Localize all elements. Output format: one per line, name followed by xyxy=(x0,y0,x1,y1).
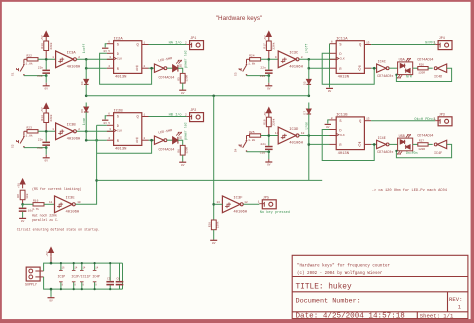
svg-text:0V: 0V xyxy=(45,87,49,90)
svg-text:R5: R5 xyxy=(177,77,180,81)
wire +5V to rail xyxy=(50,257,52,263)
svg-text:R22: R22 xyxy=(27,55,33,58)
wire R16 to IC3E xyxy=(44,203,55,205)
svg-text:IC4P: IC4P xyxy=(92,274,100,278)
wire R5 to ground xyxy=(182,83,184,90)
flip-flop IC11B xyxy=(336,117,364,150)
+5V supply supply xyxy=(49,248,54,253)
resistor R17 xyxy=(266,41,271,51)
svg-text:Q: Q xyxy=(137,116,139,120)
diode D7 xyxy=(307,109,312,113)
svg-text:Q: Q xyxy=(358,144,360,148)
wire R26 to IC4D xyxy=(428,67,433,69)
svg-text:IC4C: IC4C xyxy=(378,61,386,65)
svg-text:R9: R9 xyxy=(17,194,20,198)
wire Qbar loop IC2B xyxy=(97,140,152,153)
ground below R5 xyxy=(182,89,184,92)
wire D pin IC11B xyxy=(330,129,337,131)
svg-text:0V: 0V xyxy=(49,299,53,302)
wire R18 to node xyxy=(268,127,270,136)
svg-text:R20: R20 xyxy=(208,222,211,227)
svg-text:Q: Q xyxy=(358,68,360,72)
svg-text:10: 10 xyxy=(77,201,81,204)
node POR RC xyxy=(21,203,24,206)
svg-text:S: S xyxy=(339,120,341,124)
flip-flop IC2B xyxy=(114,113,142,146)
resistor R5 xyxy=(180,73,185,83)
svg-text:S: S xyxy=(117,116,119,120)
svg-text:4.7k: 4.7k xyxy=(32,207,39,211)
wire R pin IC11A xyxy=(330,67,337,69)
capacitor C13 xyxy=(42,70,50,72)
svg-text:D: D xyxy=(117,53,119,57)
svg-text:220k: 220k xyxy=(271,118,275,125)
wire switch top xyxy=(247,135,250,137)
wire D pin IC2A xyxy=(107,52,114,54)
wire switch bottom to cap xyxy=(24,75,46,77)
svg-text:R27: R27 xyxy=(419,140,424,143)
svg-text:IC2A: IC2A xyxy=(114,38,124,42)
svg-text:Sheet: 1/1: Sheet: 1/1 xyxy=(420,312,454,319)
svg-text:IC11A: IC11A xyxy=(336,38,348,42)
connector JP2 xyxy=(190,113,204,122)
node Qbar IC11A xyxy=(373,67,376,70)
svg-text:120R: 120R xyxy=(418,148,425,151)
node dual LED return xyxy=(395,150,397,152)
svg-text:40106H: 40106H xyxy=(67,66,81,70)
diode D6 xyxy=(84,107,89,111)
node +5V rail xyxy=(50,262,53,265)
svg-text:CD74AC0x: CD74AC0x xyxy=(377,75,393,79)
wire dual LED to R26 xyxy=(413,67,418,69)
inverter IC4C xyxy=(377,64,387,72)
svg-text:1: 1 xyxy=(458,304,461,310)
svg-text:40106H: 40106H xyxy=(67,138,81,142)
wire CLK pin IC11B xyxy=(330,135,337,137)
title block frame xyxy=(292,255,468,318)
svg-text:1=off: 1=off xyxy=(82,44,86,54)
svg-text:D4: D4 xyxy=(81,81,84,85)
svg-text:220k: 220k xyxy=(49,114,53,121)
node 0V rail xyxy=(50,288,53,291)
wire R14 to node xyxy=(45,123,47,132)
switch S2 xyxy=(23,136,25,138)
wire node to C3 xyxy=(22,204,24,207)
node R IC11B xyxy=(308,143,311,146)
svg-text:D: D xyxy=(339,53,341,57)
wire input node xyxy=(38,58,56,60)
wire D pin IC11A xyxy=(330,52,337,54)
svg-text:11: 11 xyxy=(49,201,53,204)
svg-text:13: 13 xyxy=(366,118,370,121)
+5V supply for R13 xyxy=(44,32,49,37)
node reset bus to IC3F xyxy=(212,95,215,98)
svg-text:REV:: REV: xyxy=(449,296,462,303)
ground at S of IC11B xyxy=(325,123,331,125)
svg-text:CD74AC0x: CD74AC0x xyxy=(377,151,393,155)
svg-text:1.8k: 1.8k xyxy=(248,138,255,142)
svg-text:S: S xyxy=(117,44,119,48)
svg-text:CD74AC04: CD74AC04 xyxy=(417,58,433,62)
svg-text:TITLE: hukey: TITLE: hukey xyxy=(296,284,352,292)
ground below C16 xyxy=(268,159,270,162)
svg-text:R23: R23 xyxy=(27,127,33,130)
svg-text:0V: 0V xyxy=(21,220,25,223)
svg-text:S: S xyxy=(339,44,341,48)
wire D to Qbar loop IC2A xyxy=(100,53,152,84)
svg-text:+5V: +5V xyxy=(264,35,267,40)
wire D7 to S4 node xyxy=(308,103,310,110)
wire switch bottom to cap xyxy=(247,75,269,77)
wire input node xyxy=(38,130,56,132)
svg-text:IC2B: IC2B xyxy=(114,110,124,114)
node R IC11A xyxy=(308,67,311,70)
wire node to cap xyxy=(45,59,47,69)
node Qbar IC2A xyxy=(150,67,153,70)
inverter IC3A xyxy=(56,51,74,68)
inverter IC3C xyxy=(278,51,296,68)
ground at S of IC2B xyxy=(102,119,108,121)
wire D pin IC2B xyxy=(107,124,114,126)
node IC3A output xyxy=(85,58,88,61)
svg-text:IC2P/IC11P: IC2P/IC11P xyxy=(71,274,90,278)
inverter None xyxy=(154,136,164,144)
svg-text:L=on: L=on xyxy=(305,122,309,130)
svg-text:power led: power led xyxy=(184,122,188,139)
resistor R18 xyxy=(266,117,271,127)
svg-text:1.8k: 1.8k xyxy=(248,62,255,66)
node R IC2B xyxy=(85,139,88,142)
svg-text:JP2: JP2 xyxy=(190,109,196,113)
svg-text:120R: 120R xyxy=(185,147,188,154)
wire IC3B output xyxy=(77,130,114,132)
svg-text:1.8k: 1.8k xyxy=(26,134,33,138)
ground at S of IC11A xyxy=(326,87,333,89)
wire IC3F to JP5 xyxy=(243,203,259,205)
svg-text:Date: 4/25/2004 14:57:18: Date: 4/25/2004 14:57:18 xyxy=(296,313,406,321)
svg-text:0V: 0V xyxy=(212,242,216,245)
svg-text:+5V: +5V xyxy=(41,107,44,112)
svg-text:13: 13 xyxy=(217,201,221,204)
wire reset bus xyxy=(86,95,309,97)
resistor R25 xyxy=(250,134,261,137)
+5V supply for R17 xyxy=(266,32,271,37)
svg-text:10u: 10u xyxy=(28,209,34,212)
svg-text:0V: 0V xyxy=(326,126,330,129)
svg-text:Q: Q xyxy=(359,44,361,48)
resistor R14 xyxy=(44,113,49,123)
resistor R22 xyxy=(27,58,38,61)
svg-text:D6: D6 xyxy=(81,109,84,113)
wire S of IC11A down to ground xyxy=(329,44,331,88)
wire D5 to reset bus xyxy=(308,85,310,96)
wire return loop IC4D to dual LED xyxy=(396,68,451,81)
svg-text:22n: 22n xyxy=(38,139,44,142)
svg-text:R6: R6 xyxy=(177,149,180,153)
inverter IC3F xyxy=(222,196,240,213)
wire R13 to node xyxy=(45,51,47,60)
wire S pin IC11B xyxy=(330,119,337,121)
wire switch bottom to cap xyxy=(247,151,269,153)
svg-text:120R: 120R xyxy=(418,72,425,75)
svg-text:+5V: +5V xyxy=(18,183,21,188)
svg-text:220k: 220k xyxy=(49,42,53,49)
ground below C15 xyxy=(268,83,270,86)
wire R9 to node xyxy=(22,200,24,205)
svg-text:22n: 22n xyxy=(260,143,266,146)
svg-text:0V: 0V xyxy=(104,50,108,53)
svg-text:C15: C15 xyxy=(260,75,266,78)
svg-text:IC3F: IC3F xyxy=(233,197,243,201)
LED indicator for S1 xyxy=(173,65,178,72)
svg-text:0V: 0V xyxy=(181,92,185,95)
wire inverter to LED xyxy=(167,67,173,69)
ground below C14 xyxy=(45,155,47,158)
svg-text:C13: C13 xyxy=(37,75,43,78)
resistor R20 pull xyxy=(211,220,216,230)
resistor R6 xyxy=(180,145,185,155)
resistor R13 xyxy=(44,41,49,51)
svg-text:power led: power led xyxy=(184,50,188,67)
power pin pair 3 xyxy=(81,263,83,270)
wire IC3A output xyxy=(77,58,114,60)
wire reset chain left xyxy=(85,59,87,79)
svg-text:Document Number:: Document Number: xyxy=(296,297,361,305)
switch S3 xyxy=(246,64,248,66)
wire R pin IC2A xyxy=(107,67,114,69)
connector JP3 xyxy=(438,117,452,126)
wire Qbar output IC2A xyxy=(142,67,149,69)
svg-text:IC3E: IC3E xyxy=(66,197,76,201)
svg-text:R14: R14 xyxy=(41,115,44,121)
svg-text:"Hardware keys": "Hardware keys" xyxy=(216,15,262,22)
wire S pin IC2A xyxy=(107,43,114,45)
wire to ground xyxy=(268,152,270,159)
svg-text:IC4D: IC4D xyxy=(434,76,442,80)
switch S4 xyxy=(246,140,248,142)
node IC3B output xyxy=(85,130,88,133)
svg-text:0V: 0V xyxy=(181,164,185,167)
svg-text:Circuit ensuring defined state: Circuit ensuring defined state on startu… xyxy=(17,228,100,232)
svg-text:"Hardware keys" for frequency: "Hardware keys" for frequency counter xyxy=(297,263,390,268)
svg-text:JP1: JP1 xyxy=(190,37,196,41)
wire no-key sense line xyxy=(213,96,215,220)
node cap bottom xyxy=(268,151,271,154)
svg-text:4013N: 4013N xyxy=(338,152,349,156)
dual LED U5A xyxy=(398,62,413,75)
power pin pair 4 xyxy=(94,263,96,270)
wire Qbar output IC11A xyxy=(364,67,371,69)
node trigger input S1 xyxy=(45,58,48,61)
svg-text:Q: Q xyxy=(137,44,139,48)
wire return loop IC4F to dual LED xyxy=(396,144,451,157)
node trigger input S4 xyxy=(268,134,271,137)
node R IC2A xyxy=(85,67,88,70)
wire inverter to dual LED xyxy=(389,67,398,69)
svg-text:SUPPLY: SUPPLY xyxy=(25,282,37,286)
svg-text:220k: 220k xyxy=(271,42,275,49)
svg-text:40106H: 40106H xyxy=(66,211,80,215)
wire S pin IC11A xyxy=(330,43,337,45)
node dual LED return xyxy=(395,74,397,76)
svg-text:13: 13 xyxy=(366,41,370,44)
svg-text:Hat noch 220k: Hat noch 220k xyxy=(32,213,57,217)
svg-text:S1: S1 xyxy=(12,72,15,76)
resistor R16 xyxy=(33,203,44,206)
svg-text:120R: 120R xyxy=(185,75,188,82)
svg-text:IC3A: IC3A xyxy=(67,52,77,56)
svg-text:C6: C6 xyxy=(117,277,121,280)
svg-text:CD74AC04: CD74AC04 xyxy=(159,75,175,79)
connector JP1 xyxy=(190,41,204,50)
svg-text:22n: 22n xyxy=(38,67,44,70)
wire R6 to ground xyxy=(182,155,184,162)
diode D5 xyxy=(307,79,312,83)
wire R20 to ground xyxy=(213,230,215,240)
svg-text:Q: Q xyxy=(359,120,361,124)
resistor R23 xyxy=(27,130,38,133)
inverter None xyxy=(154,64,164,72)
wire rail to ground xyxy=(50,289,52,297)
svg-text:Q: Q xyxy=(136,68,138,72)
wire to ground xyxy=(45,76,47,83)
wire input node xyxy=(261,58,279,60)
wire IC3E output riser to POR net xyxy=(76,125,97,204)
svg-text:IC3D: IC3D xyxy=(289,128,299,132)
svg-text:R13: R13 xyxy=(41,43,44,49)
wire CLK pin IC2B xyxy=(107,130,114,132)
svg-text:40106H: 40106H xyxy=(289,66,303,70)
svg-text:JP4: JP4 xyxy=(439,37,445,41)
wire CLK pin IC2A xyxy=(107,58,114,60)
+5V supply for R9 xyxy=(20,179,25,184)
node D riser at R wire xyxy=(95,139,98,142)
capacitor C16 xyxy=(265,146,273,148)
wire R pin IC11B xyxy=(330,143,337,145)
wire IC3F input xyxy=(214,203,223,205)
svg-text:R18: R18 xyxy=(263,119,266,125)
svg-text:C16: C16 xyxy=(260,151,266,154)
svg-text:R17: R17 xyxy=(263,43,266,49)
capacitor C6 xyxy=(119,263,121,281)
svg-text:1=on: 1=on xyxy=(82,118,86,126)
node reset bus left xyxy=(85,95,88,98)
wire LED to resistor R6 xyxy=(178,140,183,145)
svg-text:10k: 10k xyxy=(25,193,29,199)
svg-text:S2: S2 xyxy=(12,144,15,148)
wire switch top xyxy=(24,58,27,60)
svg-text:IC3B: IC3B xyxy=(67,124,77,128)
wire inverter to LED xyxy=(167,139,173,141)
flip-flop IC11A xyxy=(336,41,364,74)
svg-text:No key pressed: No key pressed xyxy=(260,210,290,215)
svg-text:Q: Q xyxy=(136,140,138,144)
svg-text:JP5: JP5 xyxy=(263,196,269,200)
svg-text:R25: R25 xyxy=(249,131,255,134)
wire Qbar output IC11B xyxy=(364,143,371,145)
node reset at R wire xyxy=(308,143,311,146)
wire reset line down to POR bus xyxy=(308,136,310,181)
wire D pin IC2B to POR net xyxy=(97,124,107,126)
inverter None xyxy=(437,64,447,72)
wire Q output IC11A xyxy=(364,44,371,46)
svg-text:(c) 2002 - 2004 by Wolfgang Wi: (c) 2002 - 2004 by Wolfgang Wieser xyxy=(297,271,383,276)
node Qbar IC11B xyxy=(373,143,376,146)
dual LED U5B xyxy=(398,138,413,151)
svg-text:C14: C14 xyxy=(37,147,43,150)
svg-text:22n: 22n xyxy=(260,67,266,70)
svg-text:12: 12 xyxy=(244,201,248,204)
wire Q output IC2B xyxy=(142,116,149,118)
svg-text:L=off: L=off xyxy=(305,44,309,54)
node Qbar IC2B xyxy=(150,139,153,142)
connector JP4 xyxy=(438,41,452,50)
wire reset chain right xyxy=(308,59,310,79)
node cap bottom xyxy=(45,146,48,149)
svg-text:IC11B: IC11B xyxy=(336,114,348,118)
capacitor C3 xyxy=(19,208,27,210)
svg-text:+5V: +5V xyxy=(41,35,44,40)
wire supply rail right xyxy=(122,263,124,289)
wire LED to resistor R5 xyxy=(178,68,183,73)
ground below R20 xyxy=(213,239,215,242)
wire to ground xyxy=(45,148,47,155)
svg-text:CLK: CLK xyxy=(117,130,122,133)
svg-text:HB I/o: HB I/o xyxy=(169,113,182,118)
svg-text:220k: 220k xyxy=(215,221,219,228)
svg-text:40106H: 40106H xyxy=(233,211,247,215)
power pin pair 1 xyxy=(60,263,62,270)
node reset bus right xyxy=(308,95,311,98)
node cap bottom xyxy=(268,74,271,77)
wire C3 to ground xyxy=(22,212,24,218)
svg-text:D5: D5 xyxy=(303,81,306,85)
wire D to Qbar loop IC11B xyxy=(322,130,374,161)
wire POR bus xyxy=(97,179,323,181)
inverter IC3B xyxy=(56,123,74,140)
node IC3D output xyxy=(308,134,311,137)
node POR bus xyxy=(95,179,98,182)
wire supply rail bottom xyxy=(44,277,123,289)
svg-text:JP3: JP3 xyxy=(439,113,445,117)
wire IC3C output xyxy=(299,58,336,60)
wire switch top xyxy=(247,58,250,60)
ground below C3 xyxy=(22,217,24,220)
+5V supply for R14 xyxy=(44,104,49,109)
node IC3C output xyxy=(308,58,311,61)
svg-text:Dn=PDn: Dn=PDn xyxy=(406,151,418,155)
capacitor C14 xyxy=(42,142,50,144)
ground below R6 xyxy=(182,161,184,164)
inverter IC3E xyxy=(55,196,73,213)
svg-text:R24: R24 xyxy=(249,55,255,58)
+5V supply for R18 xyxy=(266,108,271,113)
svg-text:S3: S3 xyxy=(234,72,237,76)
capacitor C5 xyxy=(109,263,111,281)
svg-text:IC3P: IC3P xyxy=(58,274,66,278)
svg-text:CLK: CLK xyxy=(340,58,345,61)
svg-text:10: 10 xyxy=(301,132,305,135)
wire CLK pin IC11A xyxy=(330,58,337,60)
svg-text:1.8k: 1.8k xyxy=(26,62,33,66)
svg-text:(R5 for current limiting): (R5 for current limiting) xyxy=(32,187,81,191)
wire dual LED to R27 xyxy=(413,143,418,145)
wire Q output IC11B xyxy=(364,120,371,122)
inverter None xyxy=(437,140,447,148)
svg-text:+5V: +5V xyxy=(264,111,267,116)
svg-text:NrM: NrM xyxy=(406,75,412,79)
svg-text:IC4F: IC4F xyxy=(434,152,442,156)
